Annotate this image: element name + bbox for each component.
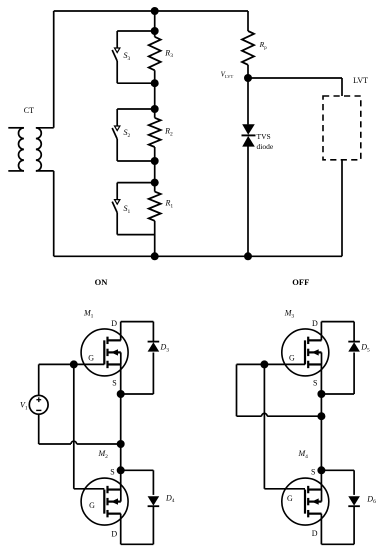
- svg-text:OFF: OFF: [292, 277, 309, 287]
- svg-text:D6: D6: [366, 494, 376, 505]
- svg-text:D: D: [312, 529, 318, 538]
- svg-text:VLVT: VLVT: [221, 70, 234, 79]
- svg-text:CT: CT: [24, 106, 34, 115]
- svg-text:M4: M4: [298, 449, 309, 460]
- svg-text:D4: D4: [165, 493, 175, 504]
- svg-text:G: G: [88, 354, 94, 363]
- svg-text:R2: R2: [164, 127, 173, 138]
- svg-text:S: S: [313, 379, 317, 388]
- svg-text:D: D: [312, 319, 318, 328]
- svg-text:D3: D3: [160, 343, 170, 354]
- svg-text:S3: S3: [124, 51, 131, 62]
- svg-text:M1: M1: [83, 309, 94, 320]
- svg-text:LVT: LVT: [353, 76, 368, 85]
- svg-text:D: D: [111, 529, 117, 538]
- svg-text:ON: ON: [95, 277, 109, 287]
- svg-text:R3: R3: [164, 48, 173, 59]
- svg-text:S1: S1: [124, 204, 131, 215]
- svg-text:M3: M3: [284, 309, 295, 320]
- svg-text:S: S: [311, 467, 315, 476]
- svg-text:S: S: [112, 379, 116, 388]
- svg-text:TVS: TVS: [257, 132, 271, 141]
- svg-text:S: S: [110, 467, 114, 476]
- svg-text:diode: diode: [257, 142, 274, 151]
- svg-text:S2: S2: [124, 128, 131, 139]
- svg-text:D5: D5: [360, 343, 370, 354]
- svg-text:M2: M2: [98, 449, 109, 460]
- svg-text:G: G: [287, 494, 293, 503]
- svg-text:D: D: [111, 319, 117, 328]
- svg-text:V1: V1: [20, 401, 28, 412]
- svg-text:R1: R1: [165, 199, 174, 210]
- svg-text:Rp: Rp: [259, 40, 268, 51]
- svg-text:G: G: [289, 354, 295, 363]
- svg-text:G: G: [89, 501, 95, 510]
